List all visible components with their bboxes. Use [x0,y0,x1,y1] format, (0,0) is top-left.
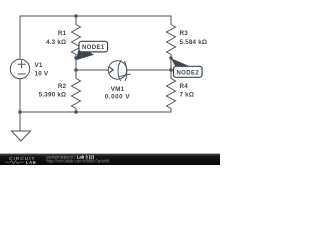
wire bottom rail [20,111,171,113]
svg-text:NODE1: NODE1 [82,45,105,51]
svg-text:http://circuitlab.com/c/hkkv7p: http://circuitlab.com/c/hkkv7pdv89 [47,159,111,164]
resistor R4 [167,70,176,112]
resistor R3 [167,16,176,58]
junction R1 top [74,14,78,18]
voltage source V1 [10,59,29,78]
junction node B lower [169,68,173,72]
wire node B vertical [170,58,172,70]
svg-text:V1: V1 [35,62,43,69]
voltmeter VM1 [108,61,127,80]
svg-text:R4: R4 [180,83,189,90]
junction ground rail [18,110,22,114]
svg-text:R3: R3 [180,30,189,37]
svg-text:7 kΩ: 7 kΩ [180,92,195,99]
node NODE2 flag [171,58,202,77]
resistor R1 [72,16,81,58]
svg-text:4.3 kΩ: 4.3 kΩ [46,39,66,46]
resistor R2 [72,70,81,112]
junction node B upper [169,56,173,60]
svg-text:VM1: VM1 [111,86,125,93]
footer bar [0,154,220,165]
svg-text:10 V: 10 V [35,70,49,77]
wire node A vertical [75,58,77,70]
svg-text:5.584 kΩ: 5.584 kΩ [180,39,208,46]
junction node A upper [74,56,78,60]
wire voltmeter to node B [127,69,171,71]
wire node A to voltmeter [76,69,108,71]
svg-text:NODE2: NODE2 [176,70,199,76]
svg-text:R1: R1 [58,30,67,37]
junction node A lower [74,68,78,72]
wire left from top rail to V1 [19,16,21,59]
ground [12,131,31,141]
logo CircuitLab [5,156,36,165]
junction R2 bottom [74,110,78,114]
svg-text:LAB: LAB [26,160,37,165]
svg-text:5.390 kΩ: 5.390 kΩ [39,92,67,99]
node NODE1 flag [76,41,108,60]
wire top rail [20,15,171,17]
svg-text:R2: R2 [58,83,67,90]
wire V1 to ground [19,79,21,131]
svg-text:0.000 V: 0.000 V [105,94,131,101]
